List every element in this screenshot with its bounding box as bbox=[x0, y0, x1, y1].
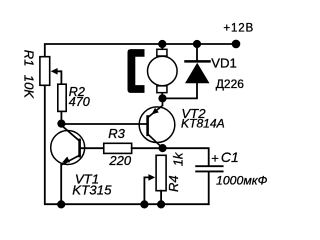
label R4 1k bbox=[166, 151, 186, 192]
svg-text:R1: R1 bbox=[22, 50, 37, 67]
svg-text:VD1: VD1 bbox=[211, 56, 237, 71]
wire left side and bottom rail bbox=[45, 86, 209, 204]
svg-text:KT814A: KT814A bbox=[181, 117, 225, 131]
wire top rail with R1 stub bbox=[45, 44, 236, 56]
rheostat R4 bbox=[144, 155, 166, 204]
node motor bottom / VT2 emitter / diode anode bbox=[158, 94, 166, 102]
node diode on rail bbox=[193, 40, 201, 48]
diode VD1 bbox=[163, 44, 210, 98]
node motor top on rail bbox=[158, 40, 166, 48]
svg-text:+12В: +12В bbox=[223, 22, 254, 35]
label R1 10K bbox=[22, 50, 37, 100]
svg-text:C1: C1 bbox=[221, 149, 239, 165]
node A junction R2/VT1/VT2 bbox=[57, 120, 65, 128]
motor M1 bbox=[128, 44, 178, 98]
wire base bus node to VT2 base bbox=[61, 123, 147, 125]
node B junction VT2 collector/R3/R4/C1 bbox=[159, 144, 167, 152]
wire R3 right to node and C1 bbox=[132, 148, 209, 165]
node R4 bottom on bottom rail bbox=[157, 200, 165, 208]
svg-text:KT315: KT315 bbox=[72, 183, 112, 198]
svg-text:470: 470 bbox=[69, 95, 90, 109]
wire R2 bottom bbox=[60, 111, 62, 123]
svg-text:10K: 10K bbox=[22, 75, 37, 99]
svg-text:1k: 1k bbox=[171, 151, 186, 166]
svg-text:Д226: Д226 bbox=[216, 77, 244, 91]
potentiometer R1 bbox=[40, 57, 62, 86]
node R4 wiper on bottom rail bbox=[140, 200, 148, 208]
node VT1 emitter on bottom rail bbox=[57, 200, 65, 208]
transistor VT2 bbox=[139, 98, 175, 148]
capacitor C1 bbox=[196, 166, 222, 204]
svg-text:220: 220 bbox=[108, 153, 131, 168]
svg-text:+: + bbox=[211, 150, 219, 165]
resistor R3 bbox=[104, 143, 132, 153]
transistor VT1 bbox=[51, 125, 104, 204]
svg-text:R3: R3 bbox=[108, 126, 125, 141]
svg-text:R4: R4 bbox=[166, 175, 181, 192]
svg-text:1000мкФ: 1000мкФ bbox=[216, 173, 268, 187]
terminal +12V bbox=[232, 40, 241, 49]
resistor R2 bbox=[58, 84, 66, 111]
